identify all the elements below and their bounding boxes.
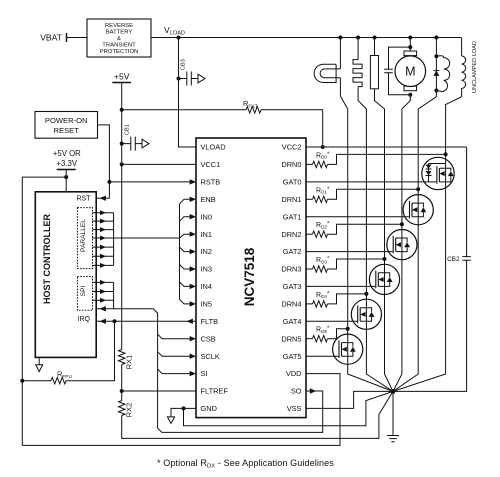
svg-text:CB3: CB3 — [181, 59, 187, 70]
svg-text:SI: SI — [201, 369, 208, 378]
svg-text:IN3: IN3 — [201, 265, 213, 274]
capacitor CB2 — [462, 257, 470, 261]
bus SPI fanout CSB SCLK SI — [158, 334, 190, 339]
svg-text:GND: GND — [201, 404, 217, 413]
unclamped inductor load (channel 0) — [462, 56, 466, 97]
ground symbol (3-bar) — [387, 436, 399, 442]
svg-text:&: & — [117, 36, 121, 42]
wire VLOAD rail top — [179, 37, 462, 39]
node star ground — [391, 389, 396, 394]
wire drain line Q5 from lamp — [340, 78, 347, 334]
block host controller — [35, 192, 96, 358]
wire GND pin to ground arrow — [171, 408, 196, 417]
svg-text:VSS: VSS — [287, 404, 302, 413]
svg-text:GAT2: GAT2 — [283, 247, 302, 256]
wire CB2 to VCC2 line — [466, 147, 468, 257]
bus SPI stubs from host — [93, 281, 114, 283]
wire RFILT to VCC2 — [261, 110, 323, 147]
wire VLOAD down to U1 VLOAD pin — [179, 38, 197, 148]
svg-text:GAT4: GAT4 — [283, 317, 302, 326]
ground arrow CB3 — [198, 74, 205, 83]
svg-text:VBAT: VBAT — [40, 33, 63, 43]
wire RSTB to U1 — [109, 181, 196, 183]
junction DRN5 drain node — [346, 327, 350, 331]
wire GAT1 to Q1 gate — [306, 216, 409, 218]
resistor RD5 (optional, DRN5 sense) — [306, 338, 313, 340]
svg-text:REVERSE: REVERSE — [105, 23, 133, 29]
wire +5V to VCC1 pin — [122, 163, 196, 165]
ground arrow CB1 — [142, 139, 149, 148]
bus SPI vertical — [113, 282, 115, 308]
svg-text:SCLK: SCLK — [201, 352, 220, 361]
junction diode bottom — [434, 89, 438, 93]
svg-text:ENB: ENB — [201, 195, 216, 204]
junction DRN4 drain node — [364, 292, 368, 296]
resistor RD1 (optional, DRN1 sense) — [306, 198, 313, 200]
wire Q1 source to star ground — [393, 225, 418, 392]
junction CB3 tap — [177, 77, 181, 81]
wire VSS to star ground — [306, 391, 393, 408]
wire lamp feed — [339, 38, 341, 69]
svg-text:CSB: CSB — [201, 334, 216, 343]
svg-text:DRN5: DRN5 — [281, 334, 301, 343]
wire VCC2 to CB2 corner — [306, 146, 467, 148]
junction RFILT tap — [120, 108, 124, 112]
wire Q0 source to star ground — [393, 190, 446, 392]
wire star right to CB2 branch — [393, 260, 467, 391]
resistor RX1 — [119, 350, 125, 365]
wire drain line Q3 from resistive load — [375, 89, 385, 264]
wire resistive load feed — [374, 38, 376, 56]
wire logic supply left rail — [22, 177, 66, 445]
motor M (channel 2) — [404, 51, 417, 56]
svg-text:GAT3: GAT3 — [283, 282, 302, 291]
wire GAT0 to Q0 gate — [306, 181, 436, 183]
resistor RD2 (optional, DRN2 sense) — [306, 233, 313, 235]
wire unclamped load feed — [461, 38, 463, 56]
svg-text:VCC2: VCC2 — [282, 143, 302, 152]
bus PARALLEL vertical — [113, 213, 115, 266]
svg-text:CB1: CB1 — [125, 124, 131, 135]
svg-text:VDD: VDD — [286, 369, 302, 378]
resistor RD0 (optional, DRN0 sense) — [306, 163, 313, 165]
svg-text:IN1: IN1 — [201, 230, 213, 239]
junction left rail RFPU — [20, 379, 24, 383]
wire FLTB to host IRQ — [96, 320, 196, 322]
transistor Q3 (channel 3 low-side MOSFET) — [369, 264, 399, 294]
inductor load (channel 1) — [436, 56, 449, 92]
svg-text:RSTB: RSTB — [201, 178, 221, 187]
svg-text:FLTREF: FLTREF — [201, 387, 229, 396]
svg-text:SO: SO — [291, 387, 302, 396]
wire Q2 source to star ground — [393, 260, 402, 392]
wire protection block to VLOAD rail — [151, 37, 179, 39]
junction RSTB tee — [107, 180, 111, 184]
block reverse battery and transient protection — [87, 19, 151, 57]
svg-text:* Optional RDX - See Applicati: * Optional RDX - See Application Guideli… — [157, 458, 334, 470]
transistor Q5 (channel 5 low-side MOSFET) — [333, 334, 363, 364]
transistor Q2 (channel 2 low-side MOSFET) — [387, 230, 417, 260]
svg-text:+5V OR: +5V OR — [53, 149, 81, 158]
wire drain line Q2 from motor — [402, 95, 410, 230]
svg-text:POWER-ON: POWER-ON — [45, 116, 88, 125]
resistor RFPU — [22, 380, 51, 382]
junction GND rail — [182, 406, 186, 410]
wire VBAT to protection block — [67, 37, 88, 39]
block SPI port (host) — [77, 277, 92, 311]
junction diode top — [434, 54, 438, 58]
svg-text:IN4: IN4 — [201, 282, 213, 291]
capacitor across motor — [389, 47, 411, 95]
junction RFILT-VCC2 — [321, 145, 325, 149]
junction VCC1 — [120, 162, 124, 166]
bus SPI trunk with SO return arrow into host — [96, 309, 323, 433]
svg-text:RX1: RX1 — [125, 355, 134, 369]
wire Q3 source to star ground — [385, 295, 394, 392]
wire motor feed — [409, 38, 411, 52]
wire drain line Q4 from heater load — [358, 87, 366, 300]
transistor Q1 (channel 1 low-side MOSFET) — [403, 195, 433, 225]
heater load (channel 4) — [353, 60, 362, 87]
wire Q4 source to star ground — [366, 329, 393, 391]
svg-text:BATTERY: BATTERY — [106, 30, 133, 36]
svg-text:M: M — [405, 65, 415, 79]
svg-text:GAT1: GAT1 — [283, 212, 302, 221]
svg-text:RESET: RESET — [54, 126, 80, 135]
svg-text:IN0: IN0 — [201, 212, 213, 221]
svg-text:PARALLEL: PARALLEL — [80, 219, 87, 252]
svg-text:NCV7518: NCV7518 — [242, 247, 257, 306]
svg-text:+3.3V: +3.3V — [57, 159, 78, 168]
bus PARALLEL fanout to ENB IN0-IN5 — [180, 199, 190, 304]
junction DRN1 drain node — [416, 187, 420, 191]
junction VLOAD — [177, 36, 181, 40]
wire clamped inductive feed — [435, 38, 437, 57]
svg-text:IN2: IN2 — [201, 247, 213, 256]
svg-text:HOST CONTROLLER: HOST CONTROLLER — [42, 214, 52, 304]
wire GAT4 to Q4 gate — [306, 320, 357, 322]
svg-text:VLOAD: VLOAD — [201, 143, 226, 152]
transistor Q0 (channel 0 low-side MOSFET) — [422, 157, 454, 189]
svg-text:UNCLAMPED LOAD: UNCLAMPED LOAD — [472, 41, 478, 93]
block power-on reset — [35, 112, 98, 139]
svg-text:DRN4: DRN4 — [281, 300, 301, 309]
IC U1 NCV7518 body — [196, 138, 306, 418]
svg-text:IN5: IN5 — [201, 300, 213, 309]
capacitor CB1 — [122, 143, 142, 145]
svg-text:RST: RST — [77, 196, 92, 203]
wire VDD to logic supply rail — [22, 374, 340, 446]
wire GND rail to star ground — [184, 391, 394, 425]
svg-text:DRN3: DRN3 — [281, 265, 301, 274]
junction DRN0 drain node — [444, 152, 448, 156]
wire heater feed — [357, 38, 359, 60]
svg-text:VCC1: VCC1 — [201, 160, 221, 169]
diode across inductor (channel 1) — [435, 56, 437, 90]
resistor RX2 — [121, 391, 123, 401]
svg-text:DRN1: DRN1 — [281, 195, 301, 204]
wire GAT2 to Q2 gate — [306, 251, 393, 253]
svg-text:DRN0: DRN0 — [281, 160, 301, 169]
terminal VBAT — [66, 33, 68, 42]
wire GAT3 to Q3 gate — [306, 285, 375, 287]
junction RFPU on FLTB line — [113, 319, 117, 323]
wire to RFILT — [122, 109, 246, 111]
ground arrow host — [38, 357, 40, 364]
svg-text:+5V: +5V — [114, 72, 130, 82]
svg-text:FLTB: FLTB — [201, 317, 219, 326]
wire Q5 source to star ground — [348, 364, 393, 391]
junction CB1 tap — [120, 142, 124, 146]
junction motor top — [408, 45, 412, 49]
junction logic supply tee — [64, 175, 68, 179]
svg-text:PROTECTION: PROTECTION — [100, 49, 139, 55]
wire logic supply to host — [65, 170, 67, 192]
bus PARALLEL trunk — [114, 237, 180, 239]
svg-text:DRN2: DRN2 — [281, 230, 301, 239]
resistor RFILT — [246, 107, 261, 113]
wire drain line Q1 from inductive load — [418, 91, 436, 195]
wire RX2 to star ground — [122, 391, 393, 438]
bus PARALLEL stubs from host — [93, 212, 114, 214]
wire +5V vertical rail — [121, 83, 123, 350]
svg-text:TRANSIENT: TRANSIENT — [102, 43, 136, 49]
wire GAT5 to Q5 gate — [306, 355, 338, 357]
svg-text:CB2: CB2 — [447, 256, 460, 263]
ground arrow U1 GND — [167, 417, 174, 424]
wire drain line Q0 from unclamped load — [446, 97, 462, 158]
block PARALLEL port (host) — [77, 208, 92, 269]
arrow SO output — [310, 388, 316, 393]
lamp load (channel 5) — [314, 64, 336, 82]
svg-text:GAT5: GAT5 — [283, 352, 302, 361]
svg-text:IRQ: IRQ — [78, 316, 91, 323]
svg-text:GAT0: GAT0 — [283, 178, 302, 187]
wire star to ground symbol — [392, 391, 394, 435]
svg-text:RX2: RX2 — [125, 403, 134, 417]
transistor Q4 (channel 4 low-side MOSFET) — [351, 299, 381, 329]
wire POR output — [98, 125, 110, 198]
wire POR to host RST — [96, 197, 109, 199]
junction DRN2 drain node — [400, 222, 404, 226]
resistive load box (channel 3) — [370, 56, 378, 89]
junction DRN3 drain node — [383, 257, 387, 261]
wire FLTREF to U1 — [122, 390, 196, 392]
capacitor CB3 — [179, 78, 199, 80]
resistor RD3 (optional, DRN3 sense) — [306, 268, 313, 270]
svg-text:SPI: SPI — [80, 286, 87, 297]
junction FLTREF divider — [120, 389, 124, 393]
resistor RD4 (optional, DRN4 sense) — [306, 303, 313, 305]
junction motor bottom — [408, 93, 412, 97]
